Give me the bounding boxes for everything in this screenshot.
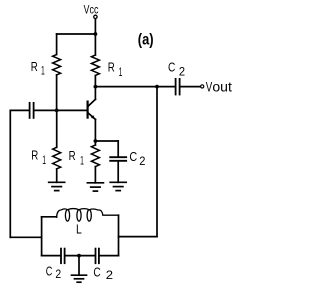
svg-text:1: 1: [119, 67, 123, 79]
wire tank left edge: [41, 217, 43, 256]
Vcc terminal: [94, 15, 97, 18]
wire tank top-left segment: [42, 216, 57, 218]
wire left branch lower: [56, 75, 58, 111]
wire base: [57, 109, 87, 111]
wire cap to Vout: [180, 86, 200, 88]
svg-text:2: 2: [139, 156, 145, 168]
svg-text:cc: cc: [90, 4, 99, 16]
wire collector rail: [95, 86, 174, 88]
wire base node to feedback cap: [34, 109, 56, 111]
wire lower-left resistor to ground: [56, 169, 58, 182]
Vout terminal: [201, 85, 204, 88]
svg-text:2: 2: [55, 269, 61, 281]
resistor R1 upper-right: [91, 55, 99, 75]
svg-text:1: 1: [42, 155, 46, 167]
capacitor feedback (base): [29, 103, 31, 118]
svg-text:C: C: [46, 263, 53, 278]
ground (base divider): [49, 182, 65, 190]
wire bypass cap to ground: [117, 162, 119, 183]
ground (emitter resistor): [87, 183, 103, 191]
resistor R1 upper-left: [53, 55, 61, 75]
wire right branch to collector node: [94, 76, 96, 87]
wire tank bottom segments: [42, 255, 61, 257]
svg-text:(a): (a): [138, 32, 154, 49]
transistor Q1: [88, 87, 96, 141]
ground (tank): [72, 275, 87, 282]
wire tank tap to ground: [78, 256, 80, 276]
wire left vertical: [9, 110, 11, 237]
svg-text:L: L: [76, 221, 82, 236]
svg-text:1: 1: [80, 155, 84, 167]
node output junction: [155, 85, 159, 89]
wire feedback cap to left vertical: [10, 109, 29, 111]
svg-text:R: R: [31, 59, 38, 74]
wire left branch upper: [56, 34, 58, 55]
svg-text:C: C: [168, 59, 175, 74]
svg-text:2: 2: [106, 270, 113, 282]
svg-text:R: R: [31, 148, 38, 163]
wire base node down: [56, 110, 58, 147]
wire left tank link: [10, 236, 41, 238]
wire right branch upper: [94, 34, 96, 55]
node Vcc rail junction: [94, 32, 98, 36]
wire Vcc stem: [94, 19, 96, 34]
ground (bypass cap): [110, 182, 126, 190]
capacitor C2 tank left: [60, 249, 62, 264]
resistor R1 emitter: [91, 145, 99, 167]
node tank center tap: [77, 254, 81, 258]
wire right tank link: [119, 236, 158, 238]
wire emitter resistor to ground: [94, 167, 96, 183]
wire emitter node to bypass cap: [95, 140, 118, 142]
capacitor C2 emitter bypass: [110, 156, 126, 158]
resistor R1 lower-left: [53, 147, 61, 169]
svg-text:R: R: [108, 60, 115, 75]
capacitor C2 output coupling: [175, 79, 177, 95]
inductor L: [57, 209, 119, 222]
svg-text:C: C: [129, 149, 137, 164]
wire tank right edge: [118, 215, 120, 255]
svg-text:out: out: [212, 80, 232, 95]
svg-text:C: C: [93, 264, 100, 279]
wire emitter node down: [94, 141, 96, 145]
svg-text:R: R: [69, 148, 76, 163]
node emitter junction: [94, 139, 98, 143]
node collector junction: [94, 85, 98, 89]
node base junction: [55, 109, 59, 113]
wire top rail: [57, 33, 96, 35]
capacitor C2 tank right: [95, 249, 97, 264]
svg-text:1: 1: [41, 66, 45, 78]
svg-text:2: 2: [179, 67, 185, 79]
wire right vertical: [156, 87, 158, 237]
